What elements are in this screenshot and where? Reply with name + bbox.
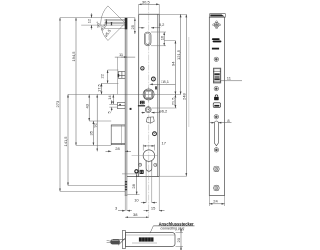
clamp wedge part <box>146 117 154 123</box>
dim 22 <box>100 70 108 83</box>
latch bolt body lines <box>105 19 126 28</box>
svg-text:21,5: 21,5 <box>170 97 175 106</box>
svg-text:194,5: 194,5 <box>71 51 76 62</box>
dark pin right of follower <box>155 86 157 89</box>
screw hole 5 <box>214 148 218 152</box>
dim 28 bottom right <box>122 174 140 195</box>
svg-text:121,5: 121,5 <box>176 49 181 60</box>
connector body <box>125 233 175 247</box>
logo block <box>212 38 222 42</box>
svg-text:43: 43 <box>84 103 89 108</box>
dim 10 <box>134 197 157 202</box>
dim 17 cylinder <box>143 141 167 151</box>
wire: ext y=108 <box>152 107 177 109</box>
dim 3 <box>115 206 132 211</box>
dim 141,5 <box>63 94 68 185</box>
dim 21,5 <box>170 94 175 108</box>
dim 12 <box>87 13 92 29</box>
dim 8,2 (slot offset) <box>138 22 165 28</box>
plug wires <box>107 240 111 242</box>
latch bolt front view <box>210 14 226 18</box>
wire: ext line y=145.3 <box>76 144 111 146</box>
svg-text:□8,1: □8,1 <box>161 79 170 84</box>
connector inner top line <box>125 234 175 236</box>
dim 28 motor box <box>106 146 132 151</box>
lock case inner wall line <box>156 14 158 176</box>
model number bar <box>212 48 219 50</box>
lock case outline <box>139 14 160 176</box>
connector flange <box>122 231 125 249</box>
svg-text:3: 3 <box>115 206 118 211</box>
dim 11 leader (faceplate) <box>221 76 242 81</box>
svg-text:22: 22 <box>100 73 105 78</box>
cylinder screw hole dia 6,2 <box>145 107 151 113</box>
latch dia 10 dim arrows <box>105 19 107 25</box>
extension lines to bottom dims <box>146 170 152 203</box>
dim 15 <box>144 206 165 211</box>
dim 121,5 <box>176 14 181 94</box>
dim 14 <box>107 94 113 104</box>
auxiliary latch part <box>118 102 132 110</box>
icon cover <box>213 103 220 108</box>
dim 94 <box>164 41 175 95</box>
svg-text:17: 17 <box>162 141 167 146</box>
svg-text:25: 25 <box>130 24 135 29</box>
latch swing fan 90 deg sector <box>101 6 125 41</box>
cylinder flank screw holes <box>139 163 157 166</box>
screw hole 6 <box>214 166 220 172</box>
wire: ext line y=70 <box>108 69 119 71</box>
stamp logo below follower <box>138 101 145 107</box>
dim 30,5 <box>139 0 160 14</box>
faceplate side view front line <box>124 18 126 196</box>
wire: latch line y=25.1 (12-dim lower ext) <box>81 24 125 26</box>
wire: ext line y=191.3 <box>60 190 125 192</box>
screw boss circle in case <box>152 77 156 81</box>
svg-text:5: 5 <box>106 111 111 114</box>
svg-text:30,5: 30,5 <box>142 0 151 5</box>
svg-text:141,5: 141,5 <box>63 136 68 147</box>
centerline of lock axis <box>148 5 150 218</box>
dim 20 connector <box>176 229 184 250</box>
svg-text:16: 16 <box>159 35 164 40</box>
wire: long axis ext line y=94.4 <box>68 93 181 95</box>
dim 194,5 <box>71 18 76 146</box>
dim 8 slot <box>210 118 232 123</box>
svg-text:8,2: 8,2 <box>159 22 165 27</box>
follower (nut) <box>141 87 156 102</box>
dim 24 <box>209 196 224 207</box>
svg-text:15: 15 <box>151 206 156 211</box>
lock case bottom edge <box>127 176 159 178</box>
wire: top extension line y=17.7 (latch top / 273 start) <box>60 17 135 19</box>
connector inner bottom line <box>132 242 157 244</box>
dim 17,5 <box>97 83 102 94</box>
svg-text:38: 38 <box>133 212 138 217</box>
svg-text:92: 92 <box>92 122 97 127</box>
bolt window cutout <box>213 68 221 83</box>
dim 43 <box>84 94 89 121</box>
wire: ext line y=121 <box>89 120 111 122</box>
dark latch passage in faceplate <box>125 18 128 29</box>
svg-text:20: 20 <box>176 237 181 242</box>
spring slot (oval) in case top <box>144 32 151 46</box>
wire: ext line y=83.3 <box>102 82 119 84</box>
svg-text:11: 11 <box>119 52 124 57</box>
svg-text:11: 11 <box>227 76 232 81</box>
screw boss circle mid case <box>153 132 157 136</box>
latch dia 5,5 dim arrows <box>111 22 113 25</box>
icon padlock <box>214 95 219 100</box>
deadbolt slot <box>215 121 219 146</box>
dim 11 (deadbolt) <box>115 52 135 95</box>
dim 38 <box>125 212 149 217</box>
deadbolt part on faceplate <box>118 72 126 79</box>
dim 16 (slot length) <box>151 32 166 46</box>
faceplate bottom edge <box>125 194 128 196</box>
wire: ext line y=185.5 <box>68 185 125 187</box>
label underline <box>153 225 194 227</box>
dark ring bottom left in case <box>135 170 138 173</box>
svg-text:8: 8 <box>227 118 230 123</box>
wire: faceplate and case bottom extension lines <box>125 177 159 211</box>
svg-text:28: 28 <box>115 146 120 151</box>
dark stamp square bottom left <box>140 170 144 174</box>
screw hole 3 <box>214 86 218 90</box>
screw hole 2 <box>214 57 218 61</box>
svg-text:14: 14 <box>107 95 112 100</box>
dim 25 (latch to slot) <box>130 18 135 34</box>
leader line to connector <box>150 226 153 233</box>
deadbolt pin circle in case <box>141 67 144 70</box>
dim 5 <box>106 100 117 113</box>
svg-text:94: 94 <box>171 61 176 66</box>
screw hole 1 with petals <box>213 21 221 29</box>
svg-text:28: 28 <box>131 183 136 188</box>
dark bottom fixing in faceplate <box>125 181 127 190</box>
dim 92 <box>92 94 97 151</box>
dim 35 <box>89 121 94 145</box>
euro profile cylinder hole <box>132 150 158 171</box>
dim 273 <box>55 18 60 192</box>
svg-text:⌀6,2: ⌀6,2 <box>159 108 168 113</box>
svg-text:10: 10 <box>134 197 139 202</box>
svg-text:24: 24 <box>213 199 218 204</box>
dim 248 <box>159 14 187 176</box>
dim square 8,1 leader <box>150 79 176 84</box>
svg-text:17,5: 17,5 <box>97 83 102 92</box>
svg-text:273: 273 <box>55 100 60 107</box>
svg-text:12: 12 <box>87 18 92 23</box>
svg-text:35: 35 <box>89 130 94 135</box>
dark component inside connector <box>139 237 154 241</box>
motor box on faceplate <box>111 125 125 145</box>
faceplate front view outline <box>209 17 224 195</box>
screw hole 4 <box>214 115 218 119</box>
faceplate side view back line <box>126 18 128 196</box>
dim dia 6,2 <box>141 108 168 113</box>
wire: faint outer vertical <box>188 37 190 127</box>
plug taper <box>111 238 126 245</box>
svg-text:248: 248 <box>182 93 187 100</box>
screw hole 7 <box>214 185 220 191</box>
